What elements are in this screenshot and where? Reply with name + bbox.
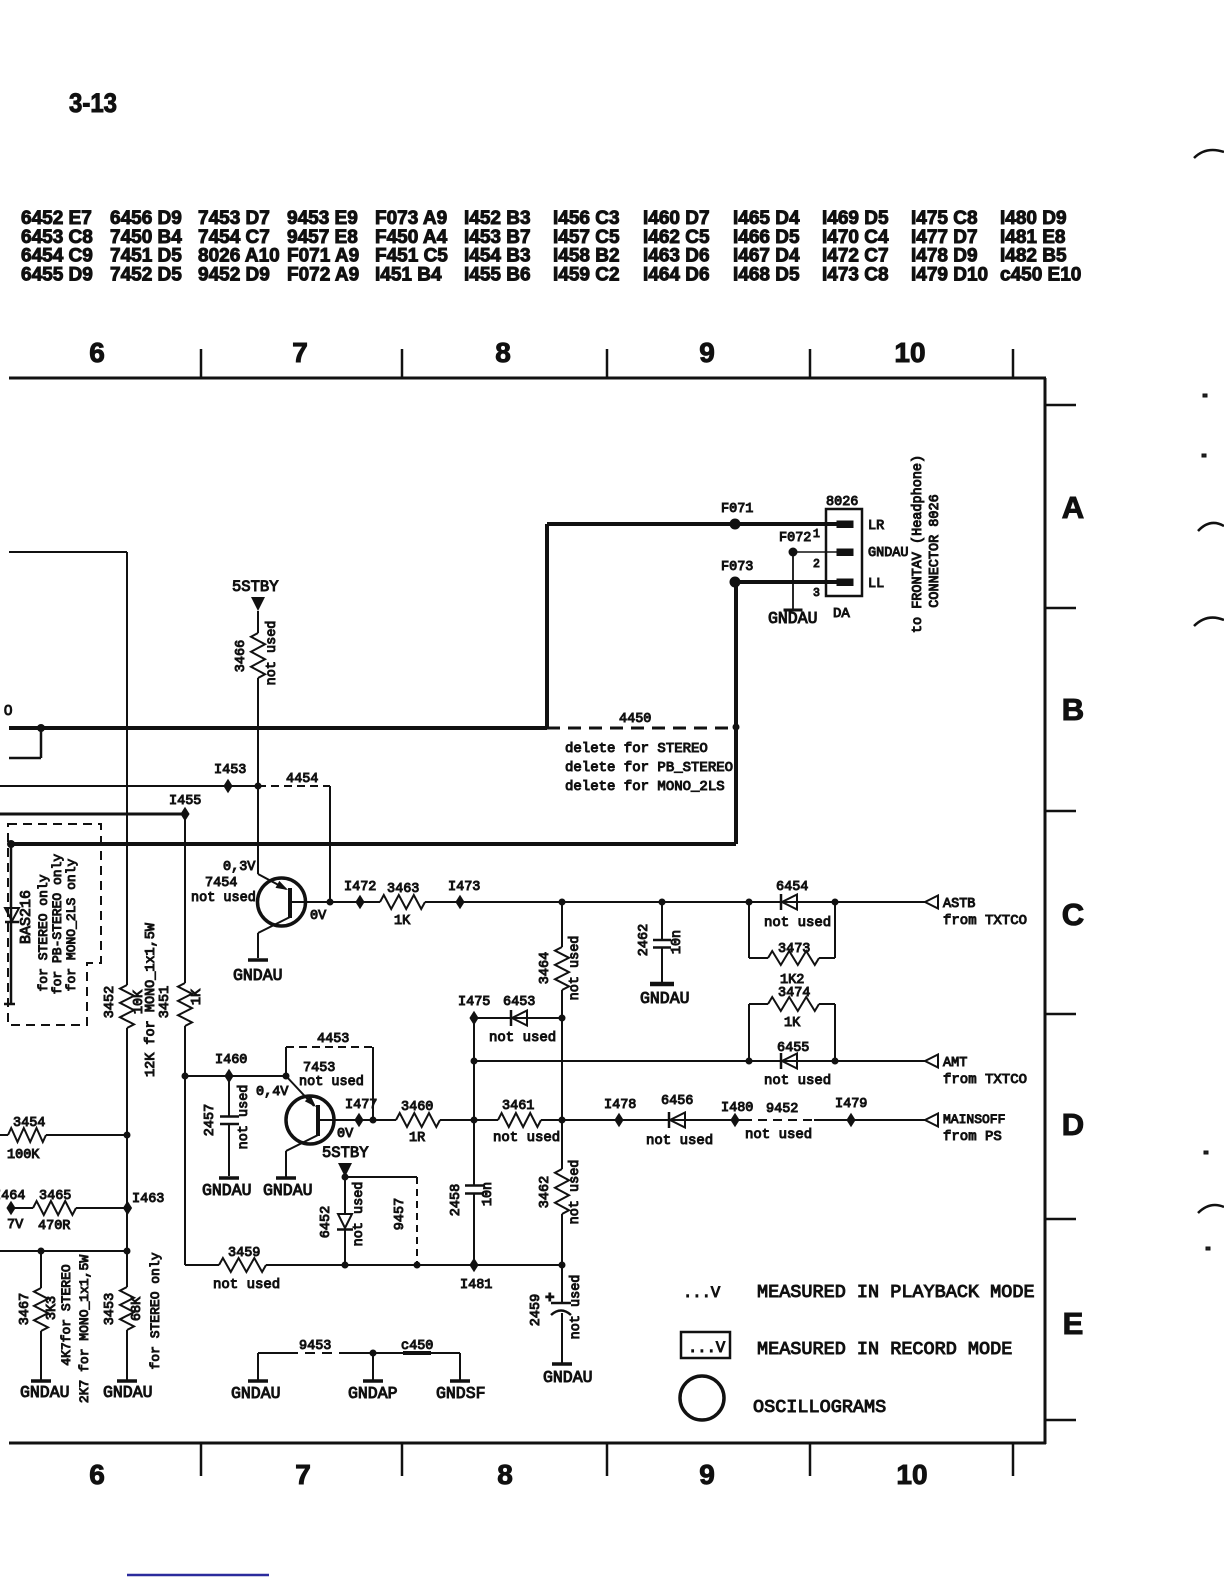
svg-text:0: 0 — [4, 702, 12, 719]
wire F073 net — [735, 582, 839, 844]
binding mark 2 — [1198, 523, 1224, 531]
svg-text:C: C — [1062, 897, 1084, 932]
resistor 3463 — [380, 882, 425, 929]
svg-text:470R: 470R — [38, 1219, 70, 1234]
binding mark 1 — [1194, 150, 1224, 158]
svg-text:GNDAU: GNDAU — [768, 609, 818, 628]
wire 6453 net — [474, 1017, 562, 1019]
svg-text:F072 A9: F072 A9 — [287, 264, 359, 285]
svg-text:5STBY: 5STBY — [322, 1144, 369, 1162]
wire 4454 deleted link — [258, 772, 330, 902]
svg-text:I472: I472 — [344, 880, 376, 895]
svg-text:3464: 3464 — [538, 952, 553, 984]
node 6455 left — [746, 1058, 753, 1065]
pin 2 label — [813, 558, 820, 571]
node AMT left — [471, 1058, 478, 1065]
wire collector line C — [306, 901, 925, 903]
test point I463 — [123, 1192, 165, 1215]
svg-text:3462: 3462 — [538, 1176, 553, 1208]
wire F072 to ground — [792, 552, 794, 610]
test point I464 — [0, 1189, 25, 1233]
svg-text:3460: 3460 — [401, 1100, 433, 1115]
svg-text:4K7for STEREO: 4K7for STEREO — [59, 1264, 74, 1366]
wire AMT line — [474, 1060, 925, 1062]
legend oscillograms — [680, 1376, 886, 1420]
ground GNDAU at 3467 — [20, 1381, 70, 1402]
svg-text:A: A — [1062, 490, 1084, 525]
note delete options — [565, 741, 733, 795]
resistor 3464 — [538, 902, 583, 1169]
svg-text:6456: 6456 — [661, 1094, 693, 1109]
grid ticks top — [201, 349, 1013, 378]
svg-text:6454: 6454 — [776, 880, 808, 895]
grid border top — [9, 377, 1046, 380]
svg-text:I460: I460 — [215, 1053, 247, 1068]
ground GNDAU at 2462 — [640, 984, 690, 1008]
svg-text:2457: 2457 — [203, 1104, 218, 1136]
svg-text:+: + — [545, 1289, 555, 1307]
grid ticks bottom — [201, 1443, 1013, 1476]
svg-text:not used: not used — [191, 891, 256, 906]
svg-text:DA: DA — [833, 606, 850, 622]
wire I460 net — [185, 1075, 286, 1077]
resistor 3453 — [103, 1252, 163, 1380]
svg-text:not used: not used — [493, 1130, 560, 1146]
svg-text:6452: 6452 — [319, 1206, 334, 1238]
svg-text:MEASURED IN RECORD MODE: MEASURED IN RECORD MODE — [757, 1339, 1012, 1360]
note for PB-STEREO only — [50, 854, 65, 995]
svg-text:I480: I480 — [721, 1101, 753, 1116]
wire I455 net — [0, 813, 185, 816]
grid ticks right — [1045, 405, 1076, 1420]
test point I455 — [169, 794, 201, 821]
resistor 3473 bypass — [749, 902, 835, 988]
resistor 3461 — [493, 1099, 560, 1146]
wire 4450 deleted link — [547, 712, 740, 731]
svg-text:I459 C2: I459 C2 — [553, 264, 620, 285]
ground GNDAU at 7453 — [263, 1178, 313, 1200]
node base 7453 — [283, 1073, 290, 1080]
svg-text:9453: 9453 — [299, 1339, 331, 1354]
svg-text:3454: 3454 — [13, 1116, 45, 1131]
binding mark 3 — [1194, 618, 1224, 626]
resistor 3467 — [18, 1251, 92, 1403]
svg-text:not used: not used — [489, 1030, 556, 1046]
legend measured in playback mode — [683, 1282, 1035, 1303]
test point I475 — [458, 995, 490, 1025]
svg-text:I481: I481 — [460, 1278, 492, 1293]
svg-text:9452 D9: 9452 D9 — [198, 264, 270, 285]
svg-text:I464 D6: I464 D6 — [643, 264, 710, 285]
ground GNDAP — [348, 1353, 398, 1403]
svg-text:4450: 4450 — [619, 712, 651, 727]
grid border bottom — [9, 1442, 1046, 1445]
bus wire upper — [9, 726, 547, 730]
svg-text:6: 6 — [89, 1459, 105, 1490]
svg-text:from TXTCO: from TXTCO — [943, 913, 1027, 929]
svg-text:I479: I479 — [835, 1097, 867, 1112]
node 6454 right — [832, 899, 839, 906]
test point I477 — [345, 1098, 377, 1127]
resistor 3451 — [158, 814, 205, 1265]
svg-text:for PB-STEREO only: for PB-STEREO only — [50, 854, 65, 995]
svg-text:10: 10 — [894, 337, 925, 368]
svg-text:F071: F071 — [721, 502, 753, 517]
svg-text:2K7 for MONO_1x1,5W: 2K7 for MONO_1x1,5W — [77, 1255, 92, 1403]
option box 4453 — [286, 1032, 373, 1120]
node 3451 column — [182, 1073, 189, 1080]
svg-text:I477: I477 — [345, 1098, 377, 1113]
svg-text:6455 D9: 6455 D9 — [21, 264, 93, 285]
svg-text:7: 7 — [292, 337, 308, 368]
stub wire to left edge — [9, 728, 41, 758]
transistor 7453 — [256, 1061, 364, 1177]
svg-text:c450 E10: c450 E10 — [1000, 264, 1081, 285]
svg-text:6455: 6455 — [777, 1041, 809, 1056]
test point I472 — [344, 880, 376, 909]
svg-text:I475: I475 — [458, 995, 490, 1010]
svg-text:for STEREO only: for STEREO only — [148, 1252, 163, 1369]
svg-text:6: 6 — [89, 337, 105, 368]
svg-text:2458: 2458 — [449, 1184, 464, 1216]
svg-text:not used: not used — [568, 936, 583, 1001]
net label 0 — [4, 702, 12, 719]
svg-text:3474: 3474 — [778, 986, 810, 1001]
svg-text:8: 8 — [495, 337, 511, 368]
svg-text:3461: 3461 — [502, 1099, 534, 1114]
svg-text:3463: 3463 — [387, 882, 419, 897]
svg-text:F073: F073 — [721, 560, 753, 575]
svg-text:8: 8 — [497, 1459, 513, 1490]
svg-text:delete for PB_STEREO: delete for PB_STEREO — [565, 760, 733, 776]
resistor 3474 bypass — [749, 986, 835, 1061]
svg-text:...V: ...V — [688, 1339, 726, 1357]
specks — [1202, 394, 1210, 1250]
diode 6454 — [764, 880, 831, 931]
svg-text:3459: 3459 — [228, 1246, 260, 1261]
svg-text:10n: 10n — [481, 1182, 496, 1206]
grid row letters — [1062, 490, 1084, 1341]
wire 9457 deleted link — [393, 1177, 417, 1265]
diode 6452 — [319, 1177, 367, 1265]
ground GNDAU at 3453 — [103, 1381, 153, 1402]
capacitor 2459 — [529, 1265, 584, 1363]
svg-text:100K: 100K — [7, 1148, 40, 1163]
connector 8026 — [826, 495, 862, 596]
svg-text:CONNECTOR 8026: CONNECTOR 8026 — [928, 494, 943, 607]
svg-text:0V: 0V — [337, 1127, 354, 1142]
note CONNECTOR 8026 — [928, 494, 943, 607]
svg-text:7454: 7454 — [205, 876, 237, 891]
connector name DA — [833, 606, 850, 622]
svg-text:ASTB: ASTB — [943, 897, 975, 912]
svg-text:2462: 2462 — [637, 924, 652, 956]
resistor 3459 — [213, 1246, 280, 1293]
node 6454 left — [746, 899, 753, 906]
node F072 — [779, 531, 811, 557]
resistor 3466 — [234, 611, 280, 874]
node F073 — [721, 560, 753, 588]
svg-text:7V: 7V — [7, 1218, 24, 1233]
resistor 3465 — [11, 1189, 128, 1234]
signal arrow ASTB from TXTCO — [925, 896, 1027, 930]
svg-text:3473: 3473 — [778, 942, 810, 957]
svg-text:not used: not used — [569, 1275, 584, 1340]
wire link c450 — [401, 1339, 433, 1354]
svg-text:I468 D5: I468 D5 — [733, 264, 800, 285]
svg-text:4454: 4454 — [286, 772, 318, 787]
svg-text:F072: F072 — [779, 531, 811, 546]
svg-text:6453: 6453 — [503, 995, 535, 1010]
svg-text:3: 3 — [813, 587, 820, 600]
svg-text:LL: LL — [868, 577, 884, 592]
node at 3466 column — [255, 783, 262, 790]
resistor 3462 — [538, 1160, 583, 1265]
page number 3-13 — [69, 88, 117, 118]
wire line E 3459 net — [185, 1264, 562, 1266]
resistor 3452 — [103, 552, 159, 1287]
svg-text:7452 D5: 7452 D5 — [110, 264, 182, 285]
svg-text:0,3V: 0,3V — [223, 860, 256, 875]
svg-text:1: 1 — [813, 528, 820, 541]
ground GNDSF — [436, 1353, 486, 1403]
svg-text:MAINSOFF: MAINSOFF — [943, 1112, 1005, 1127]
note for STEREO only — [36, 874, 51, 991]
wire 5STBY to 9457 — [345, 1176, 417, 1178]
svg-text:B: B — [1062, 692, 1084, 727]
test point I481 — [460, 1258, 492, 1293]
node 4454 junction — [327, 899, 334, 906]
wire BAS216 branch — [4, 844, 15, 1004]
svg-text:GNDAU: GNDAU — [640, 989, 690, 1008]
svg-text:9452: 9452 — [766, 1102, 798, 1117]
signal arrow MAINSOFF from PS — [925, 1112, 1005, 1145]
note for MONO_2LS only — [64, 858, 79, 991]
resistor 3460 — [396, 1100, 440, 1146]
diode BAS216 — [5, 890, 35, 944]
svg-text:GNDAU: GNDAU — [543, 1368, 593, 1387]
wire net from left edge row B — [9, 551, 127, 553]
svg-text:I453: I453 — [214, 763, 246, 778]
svg-text:to FRONTAV (Headphone): to FRONTAV (Headphone) — [911, 455, 926, 633]
test point I473 — [448, 880, 480, 909]
node 6452 bottom — [342, 1262, 349, 1269]
svg-text:4453: 4453 — [317, 1032, 349, 1047]
node 2462 top — [659, 899, 666, 906]
svg-text:GNDAU: GNDAU — [868, 546, 909, 561]
svg-text:for STEREO only: for STEREO only — [36, 874, 51, 991]
svg-text:AMT: AMT — [943, 1056, 967, 1071]
svg-text:3K3: 3K3 — [45, 1296, 60, 1320]
node 6455 right — [832, 1058, 839, 1065]
svg-text:9457: 9457 — [393, 1198, 408, 1230]
svg-text:from PS: from PS — [943, 1129, 1002, 1145]
svg-text:2459: 2459 — [529, 1294, 544, 1326]
svg-text:GNDAU: GNDAU — [233, 966, 283, 985]
svg-text:GNDAU: GNDAU — [202, 1181, 252, 1200]
node collector 7453 — [370, 1117, 377, 1124]
test point I478 — [604, 1098, 636, 1127]
ground GNDAU at 2457 — [202, 1178, 252, 1200]
svg-text:GNDAU: GNDAU — [263, 1181, 313, 1200]
svg-text:3451: 3451 — [158, 986, 173, 1018]
node 3454 junction — [124, 1132, 131, 1139]
ground GNDAU at 7454 — [233, 960, 283, 985]
svg-text:0,4V: 0,4V — [256, 1085, 289, 1100]
svg-text:E: E — [1063, 1306, 1084, 1341]
svg-text:delete for MONO_2LS: delete for MONO_2LS — [565, 779, 725, 795]
svg-text:not used: not used — [352, 1182, 367, 1247]
pin name GNDAU — [868, 546, 909, 561]
supply 5STBY upper — [232, 578, 279, 611]
svg-text:GNDAU: GNDAU — [231, 1384, 281, 1403]
svg-text:GNDSF: GNDSF — [436, 1384, 486, 1403]
node 3462 bottom — [559, 1262, 566, 1269]
svg-text:7: 7 — [295, 1459, 311, 1490]
wire 9452 deleted link — [743, 1102, 814, 1143]
wire I453 net — [0, 785, 258, 787]
svg-text:12K for MONO_1x1,5W: 12K for MONO_1x1,5W — [144, 922, 159, 1077]
capacitor 2462 — [637, 902, 685, 983]
svg-text:1K: 1K — [190, 988, 205, 1005]
test point I460 — [215, 1053, 247, 1083]
diode 6455 — [764, 1041, 831, 1089]
svg-text:10n: 10n — [670, 930, 685, 954]
grid column numbers bottom — [89, 1459, 927, 1490]
svg-text:not used: not used — [299, 1075, 364, 1090]
svg-text:OSCILLOGRAMS: OSCILLOGRAMS — [753, 1397, 886, 1418]
svg-text:not used: not used — [745, 1127, 812, 1143]
svg-text:GNDAP: GNDAP — [348, 1384, 398, 1403]
svg-text:I455: I455 — [169, 794, 201, 809]
test point I479 — [835, 1097, 867, 1127]
ground GNDAU at F072 — [768, 609, 818, 628]
resistor 3454 — [0, 1116, 127, 1163]
svg-text:9: 9 — [699, 337, 715, 368]
svg-text:3453: 3453 — [103, 1293, 118, 1325]
svg-text:I479 D10: I479 D10 — [911, 264, 988, 285]
diode 6456 — [646, 1094, 713, 1149]
note to FRONTAV (Headphone) — [911, 455, 926, 633]
svg-text:c450: c450 — [401, 1339, 433, 1354]
svg-text:LR: LR — [868, 519, 884, 534]
test point I480 — [721, 1101, 753, 1127]
svg-text:9: 9 — [699, 1459, 715, 1490]
svg-text:3-13: 3-13 — [69, 88, 117, 118]
svg-text:7453: 7453 — [303, 1061, 335, 1076]
svg-text:GNDAU: GNDAU — [103, 1383, 153, 1402]
wire F071 net — [547, 524, 839, 728]
svg-text:3452: 3452 — [103, 986, 118, 1018]
node 5STBY lower — [342, 1174, 349, 1181]
svg-text:MEASURED IN PLAYBACK MODE: MEASURED IN PLAYBACK MODE — [757, 1282, 1035, 1303]
ground GNDAU at 2459 — [543, 1364, 593, 1387]
svg-text:not used: not used — [237, 1085, 252, 1150]
transistor 7454 — [191, 860, 327, 958]
svg-text:1K: 1K — [784, 1016, 801, 1031]
node 3467 top — [38, 1248, 45, 1255]
svg-text:delete for STEREO: delete for STEREO — [565, 741, 708, 757]
svg-text:for MONO_2LS only: for MONO_2LS only — [64, 858, 79, 991]
node 3462 top — [559, 1117, 566, 1124]
svg-text:I478: I478 — [604, 1098, 636, 1113]
svg-text:I455 B6: I455 B6 — [464, 264, 531, 285]
svg-text:68K: 68K — [130, 1296, 145, 1321]
node 9457 bottom — [414, 1262, 421, 1269]
svg-text:I464: I464 — [0, 1189, 25, 1204]
svg-text:3467: 3467 — [18, 1293, 33, 1325]
svg-text:from TXTCO: from TXTCO — [943, 1072, 1027, 1088]
pin 1 label — [813, 528, 820, 541]
svg-text:not used: not used — [213, 1277, 280, 1293]
svg-text:1R: 1R — [409, 1131, 425, 1146]
node on bus upper — [37, 724, 45, 732]
svg-text:1K: 1K — [394, 914, 411, 929]
node GNDAP — [370, 1350, 377, 1357]
wire ground branch line — [0, 1250, 127, 1252]
legend measured in record mode — [681, 1332, 1012, 1360]
svg-text:D: D — [1062, 1107, 1084, 1142]
svg-text:not used: not used — [764, 1073, 831, 1089]
grid column numbers top — [89, 337, 925, 368]
wire line D — [332, 1119, 925, 1121]
option box BAS216 — [8, 824, 101, 1025]
svg-text:GNDAU: GNDAU — [20, 1383, 70, 1402]
pin 3 label — [813, 587, 820, 600]
pin name LL — [868, 577, 884, 592]
node 2458 top — [471, 1117, 478, 1124]
signal arrow AMT from TXTCO — [925, 1055, 1027, 1089]
svg-text:not used: not used — [646, 1133, 713, 1149]
svg-text:I463: I463 — [132, 1192, 164, 1207]
node bus lower left — [7, 840, 15, 848]
capacitor 2458 — [449, 1018, 496, 1265]
svg-text:3466: 3466 — [234, 640, 249, 672]
svg-text:10: 10 — [896, 1459, 927, 1490]
pin name LR — [868, 519, 884, 534]
binding mark 4 — [1198, 1205, 1224, 1213]
svg-text:not used: not used — [265, 621, 280, 686]
node 3464 top — [559, 899, 566, 906]
diode 6453 — [489, 995, 556, 1046]
component location index table — [21, 208, 1081, 285]
test point I453 — [214, 763, 246, 793]
ground GNDAU left — [231, 1353, 281, 1403]
wire F072 to pin 2 — [793, 551, 839, 553]
svg-text:not used: not used — [764, 915, 831, 931]
supply 5STBY lower — [322, 1144, 369, 1177]
svg-text:0V: 0V — [310, 909, 327, 924]
svg-text:not used: not used — [568, 1160, 583, 1225]
svg-text:2: 2 — [813, 558, 820, 571]
node F071 — [721, 502, 753, 530]
grid border right — [1044, 378, 1047, 1444]
node 6453 right — [559, 1015, 566, 1022]
capacitor 2457 — [203, 1076, 252, 1176]
node 3453 top — [124, 1248, 131, 1255]
svg-text:I473: I473 — [448, 880, 480, 895]
svg-text:3465: 3465 — [39, 1189, 71, 1204]
svg-text:BAS216: BAS216 — [18, 890, 35, 944]
svg-text:I451 B4: I451 B4 — [375, 264, 442, 285]
wire 9453 deleted link — [258, 1339, 460, 1354]
blue underline mark — [127, 1574, 269, 1577]
svg-text:5STBY: 5STBY — [232, 578, 279, 596]
bus wire lower — [11, 842, 736, 846]
svg-text:I473 C8: I473 C8 — [822, 264, 889, 285]
svg-text:8026: 8026 — [826, 495, 858, 510]
svg-text:...V: ...V — [683, 1284, 721, 1302]
